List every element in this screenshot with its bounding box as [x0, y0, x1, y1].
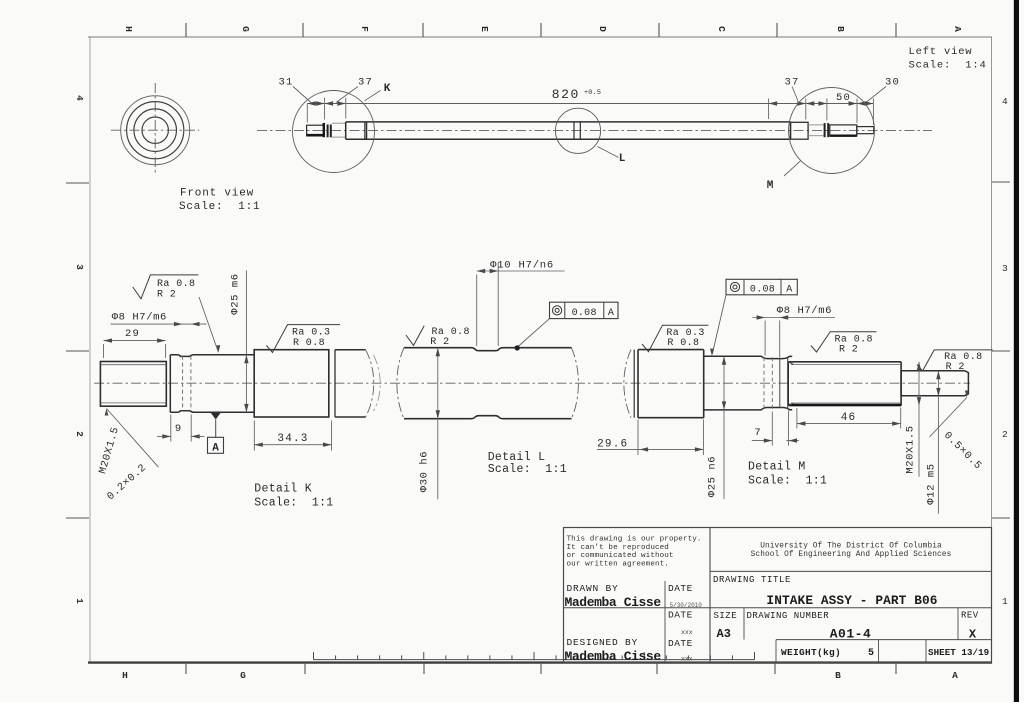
svg-text:3: 3 [1002, 263, 1008, 274]
svg-text:G: G [240, 670, 246, 681]
detail K land section with relief groove [170, 355, 254, 413]
arrowheads 820 row [307, 101, 316, 105]
svg-text:REV: REV [961, 611, 979, 621]
dim 46 [797, 423, 901, 425]
surface finish Ra 0.8 R 2 detail L [406, 326, 424, 346]
svg-text:A: A [952, 26, 963, 32]
zone ticks right edge [992, 181, 1010, 183]
svg-text:Detail M: Detail M [748, 461, 806, 474]
svg-text:xxx: xxx [681, 656, 693, 663]
dimension line 820 row [307, 103, 873, 105]
surface finish Ra 0.3 R 0.8 detail K [266, 325, 340, 353]
svg-text:46: 46 [841, 412, 857, 424]
svg-text:29.6: 29.6 [597, 438, 628, 450]
detail M body phi30 [638, 350, 704, 418]
svg-text:Front view: Front view [180, 188, 254, 200]
svg-text:Φ30 h6: Φ30 h6 [419, 451, 431, 492]
svg-text:INTAKE ASSY - PART B06: INTAKE ASSY - PART B06 [766, 593, 937, 608]
svg-text:1: 1 [1002, 596, 1008, 607]
detail M circle [789, 88, 875, 174]
svg-text:University Of The District Of: University Of The District Of Columbia [760, 542, 942, 550]
svg-text:R 2: R 2 [839, 344, 858, 355]
dim phi12 m5 vertical [937, 371, 939, 514]
shaft neck right (thin) [808, 124, 823, 126]
dim phi10 H7/n6 [477, 270, 565, 272]
shaft phi25 neck left (thin) [332, 122, 346, 124]
datum feature A detail K [211, 413, 221, 420]
svg-text:L: L [619, 153, 626, 165]
svg-text:A3: A3 [717, 627, 731, 641]
thread note M20X1.5 detail K [107, 409, 159, 468]
svg-text:SHEET 13/19: SHEET 13/19 [928, 647, 989, 658]
weight sheet row [776, 639, 992, 641]
svg-text:H: H [123, 26, 134, 32]
svg-text:A: A [212, 442, 219, 454]
svg-text:It can't be reproduced: It can't be reproduced [567, 544, 669, 552]
detail K groove hidden lines [182, 356, 184, 412]
shaft groove at L [573, 122, 575, 139]
dim phi30 h6 vertical [437, 348, 439, 500]
svg-text:A: A [952, 670, 958, 681]
leader with dot detail L [518, 319, 550, 347]
zone ticks left edge [66, 182, 89, 184]
svg-text:DATE: DATE [668, 583, 693, 594]
svg-text:G: G [240, 26, 251, 32]
detail M groove hidden lines [763, 357, 765, 409]
svg-text:School Of Engineering And Appl: School Of Engineering And Applied Scienc… [751, 551, 952, 559]
svg-text:Ra 0.3: Ra 0.3 [666, 328, 704, 339]
svg-text:DATE: DATE [668, 610, 693, 621]
detail K thread body [100, 362, 166, 407]
shaft thread section left end [307, 125, 324, 136]
svg-text:DESIGNED BY: DESIGNED BY [567, 637, 639, 648]
svg-text:E: E [479, 26, 490, 32]
title block outer box [564, 528, 992, 663]
zone ticks bottom edge [185, 663, 187, 674]
svg-text:7: 7 [754, 427, 760, 439]
detail K phi30 section [254, 350, 329, 417]
chamfer note 0.5x0.5 [930, 398, 967, 438]
surface finish Ra 0.8 R 2 detail K [133, 275, 199, 299]
svg-text:30: 30 [885, 77, 900, 89]
detail L body [404, 348, 572, 419]
svg-text:5: 5 [868, 648, 874, 659]
svg-text:B: B [835, 670, 841, 681]
drawing frame border [88, 36, 992, 38]
shaft right groove lines [824, 123, 826, 137]
svg-text:Φ12 m5: Φ12 m5 [926, 463, 938, 504]
svg-text:37: 37 [358, 77, 373, 89]
svg-text:R 0.8: R 0.8 [293, 338, 325, 349]
svg-text:F: F [359, 26, 370, 32]
dim phi8 H7/m6 [111, 323, 207, 325]
svg-text:A01-4: A01-4 [830, 626, 872, 641]
dim M20x1.5 vertical [918, 362, 920, 477]
dim 34.3 [254, 444, 331, 446]
surface finish Ra 0.8 R 2 at tip [917, 350, 993, 371]
svg-text:our written agreement.: our written agreement. [567, 560, 669, 568]
svg-text:SIZE: SIZE [714, 611, 738, 621]
svg-text:D: D [597, 26, 608, 32]
svg-text:2: 2 [74, 431, 85, 437]
svg-text:Scale: 1:1: Scale: 1:1 [748, 475, 827, 488]
svg-text:34.3: 34.3 [277, 433, 308, 445]
detail M phi25 section with relief groove [704, 356, 792, 410]
svg-text:2: 2 [1002, 429, 1008, 440]
svg-text:Ra 0.3: Ra 0.3 [292, 327, 330, 338]
drawing title cell [710, 570, 992, 572]
dim 29.6 [597, 448, 703, 450]
svg-text:M: M [767, 180, 774, 192]
feature control frame detail M [726, 279, 797, 295]
dim 7 [752, 440, 773, 442]
svg-text:DATE: DATE [668, 638, 693, 649]
svg-text:H: H [122, 670, 128, 681]
svg-text:This drawing is our property.: This drawing is our property. [567, 536, 702, 544]
svg-text:A: A [608, 308, 614, 319]
extension lines top dims [306, 104, 308, 123]
svg-text:Φ25 m6: Φ25 m6 [230, 273, 242, 314]
svg-text:9: 9 [175, 423, 181, 435]
svg-text:xxx: xxx [681, 629, 693, 636]
svg-text:Detail K: Detail K [254, 483, 312, 496]
svg-text:Ra 0.8: Ra 0.8 [157, 279, 195, 290]
dim phi25 n6 vertical detail M [723, 356, 725, 499]
shaft phi25 step right [791, 122, 809, 139]
svg-text:C: C [716, 26, 727, 32]
svg-text:M20X1.5: M20X1.5 [905, 425, 917, 473]
front view centerlines [111, 129, 199, 131]
svg-text:4: 4 [74, 95, 85, 101]
centering ruler bottom [314, 659, 755, 661]
svg-text:1: 1 [74, 598, 85, 604]
detail L break lines [397, 348, 404, 419]
surface finish Ra 0.3 R 0.8 detail M [642, 325, 708, 352]
dim phi25 m6 vertical [245, 270, 247, 412]
svg-text:Φ8 H7/m6: Φ8 H7/m6 [777, 305, 832, 317]
svg-text:+0.5: +0.5 [584, 89, 601, 97]
svg-text:R 0.8: R 0.8 [667, 338, 699, 349]
svg-text:4: 4 [1002, 96, 1008, 107]
dim phi8 H7/m6 detail M [752, 317, 835, 319]
svg-text:R 2: R 2 [157, 290, 176, 301]
shaft centerline left view [257, 129, 932, 131]
dim 9 [157, 435, 171, 437]
svg-text:or communicated without: or communicated without [567, 552, 674, 560]
detail M thread M20 body [788, 362, 901, 406]
svg-text:Scale: 1:1: Scale: 1:1 [254, 496, 333, 509]
detail K thread minor lines [100, 364, 166, 366]
scanner edge dark bar [1014, 0, 1019, 702]
surface finish Ra 0.8 R 2 over thread [811, 332, 877, 352]
svg-text:Scale: 1:1: Scale: 1:1 [179, 201, 260, 213]
title block main divider [709, 528, 711, 663]
svg-text:3: 3 [74, 264, 85, 270]
svg-text:R 2: R 2 [946, 362, 965, 373]
rev cell [957, 608, 959, 640]
svg-text:B: B [835, 26, 846, 32]
shaft body main [346, 122, 791, 139]
svg-text:A: A [786, 284, 792, 295]
svg-text:820: 820 [552, 87, 580, 102]
detail M groove to thread face [787, 357, 789, 409]
svg-text:Scale: 1:1: Scale: 1:1 [488, 463, 567, 476]
zone ticks top edge [185, 23, 187, 37]
svg-text:Φ8 H7/m6: Φ8 H7/m6 [112, 312, 167, 324]
svg-text:Scale: 1:4: Scale: 1:4 [909, 59, 987, 71]
detail K second section and break line [335, 350, 366, 417]
drawn by cell [664, 581, 666, 663]
detail M break line [624, 350, 631, 418]
svg-text:Φ10 H7/n6: Φ10 H7/n6 [490, 259, 554, 271]
svg-text:29: 29 [125, 328, 140, 340]
svg-text:Left view: Left view [909, 46, 973, 58]
svg-text:31: 31 [278, 77, 293, 89]
svg-text:DRAWING NUMBER: DRAWING NUMBER [747, 611, 830, 621]
details common centerline [94, 382, 970, 384]
leader detail M fcf [712, 295, 726, 355]
detail M phi12 tip [901, 371, 968, 397]
svg-text:K: K [384, 83, 391, 95]
title block row line [564, 607, 992, 609]
svg-text:0.08: 0.08 [750, 284, 775, 295]
front view concentric circles [121, 96, 190, 165]
feature control frame detail L [550, 302, 619, 318]
shaft notch near K [364, 122, 366, 139]
svg-text:50: 50 [836, 92, 851, 104]
svg-text:WEIGHT(kg): WEIGHT(kg) [781, 647, 841, 658]
shaft M20 thread right [830, 125, 857, 136]
shaft phi12 tip [857, 127, 874, 134]
svg-text:DRAWN BY: DRAWN BY [567, 583, 619, 594]
svg-text:Φ25 n6: Φ25 n6 [707, 456, 719, 497]
size cell [743, 608, 745, 640]
detail K notch [328, 350, 330, 417]
shaft left groove lines [327, 125, 329, 138]
svg-text:0.08: 0.08 [572, 308, 597, 319]
detail K circle [293, 91, 375, 173]
svg-text:DRAWING TITLE: DRAWING TITLE [713, 575, 791, 585]
detail L circle [555, 108, 600, 153]
dim 29 [104, 340, 166, 342]
svg-text:R 2: R 2 [430, 337, 449, 348]
detail M thread minor lines [791, 364, 901, 366]
svg-text:Mademba Cisse: Mademba Cisse [565, 649, 662, 664]
